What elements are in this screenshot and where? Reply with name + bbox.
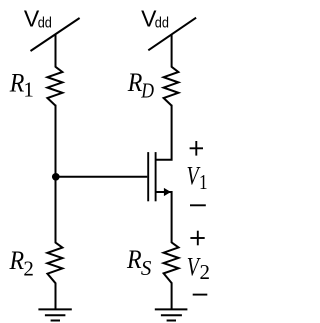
label V2 xyxy=(187,252,202,281)
resistor RS xyxy=(164,242,179,283)
wire: RD to drain corner xyxy=(156,105,172,160)
svg-text:S: S xyxy=(141,256,152,280)
label R1 xyxy=(9,70,25,98)
svg-text:R: R xyxy=(127,69,143,97)
wire: left Vdd to R1 xyxy=(55,34,57,67)
wire: R2 to ground xyxy=(55,283,57,310)
resistor R2 xyxy=(47,243,62,284)
wire: R1 to R2 (through gate node) xyxy=(55,105,57,244)
svg-text:1: 1 xyxy=(23,78,34,102)
resistor R1 xyxy=(47,67,62,106)
svg-text:1: 1 xyxy=(199,171,208,194)
plus sign (V2) xyxy=(190,237,204,239)
svg-text:R: R xyxy=(126,246,142,274)
minus sign (V2) xyxy=(193,294,208,296)
source arrow xyxy=(164,188,171,196)
label V1 xyxy=(187,161,202,190)
node dot (gate node) xyxy=(52,173,60,181)
transistor M1: gate bar xyxy=(147,152,149,201)
label R2 xyxy=(9,247,25,275)
label RS xyxy=(126,246,142,274)
resistor RD xyxy=(164,67,179,106)
minus sign (V1) xyxy=(190,204,206,206)
svg-text:2: 2 xyxy=(23,256,34,280)
svg-text:dd: dd xyxy=(38,13,52,30)
transistor M1: channel bar xyxy=(155,152,157,201)
Vdd supply symbol right (diagonal) xyxy=(148,18,196,51)
ground (left) xyxy=(38,308,71,310)
Vdd supply symbol left (diagonal) xyxy=(31,18,80,51)
label RD xyxy=(127,69,143,97)
wire: RS to ground xyxy=(171,282,173,309)
ground (right) xyxy=(155,308,188,310)
wire: gate (node to MOSFET) xyxy=(56,176,148,178)
svg-text:dd: dd xyxy=(155,13,169,30)
svg-text:R: R xyxy=(9,70,25,98)
svg-text:R: R xyxy=(9,247,25,275)
svg-text:2: 2 xyxy=(200,260,211,284)
plus sign (V1) xyxy=(190,147,203,149)
wire: right Vdd to RD xyxy=(171,34,173,67)
wire: source to RS xyxy=(156,192,172,243)
svg-text:D: D xyxy=(140,80,154,103)
